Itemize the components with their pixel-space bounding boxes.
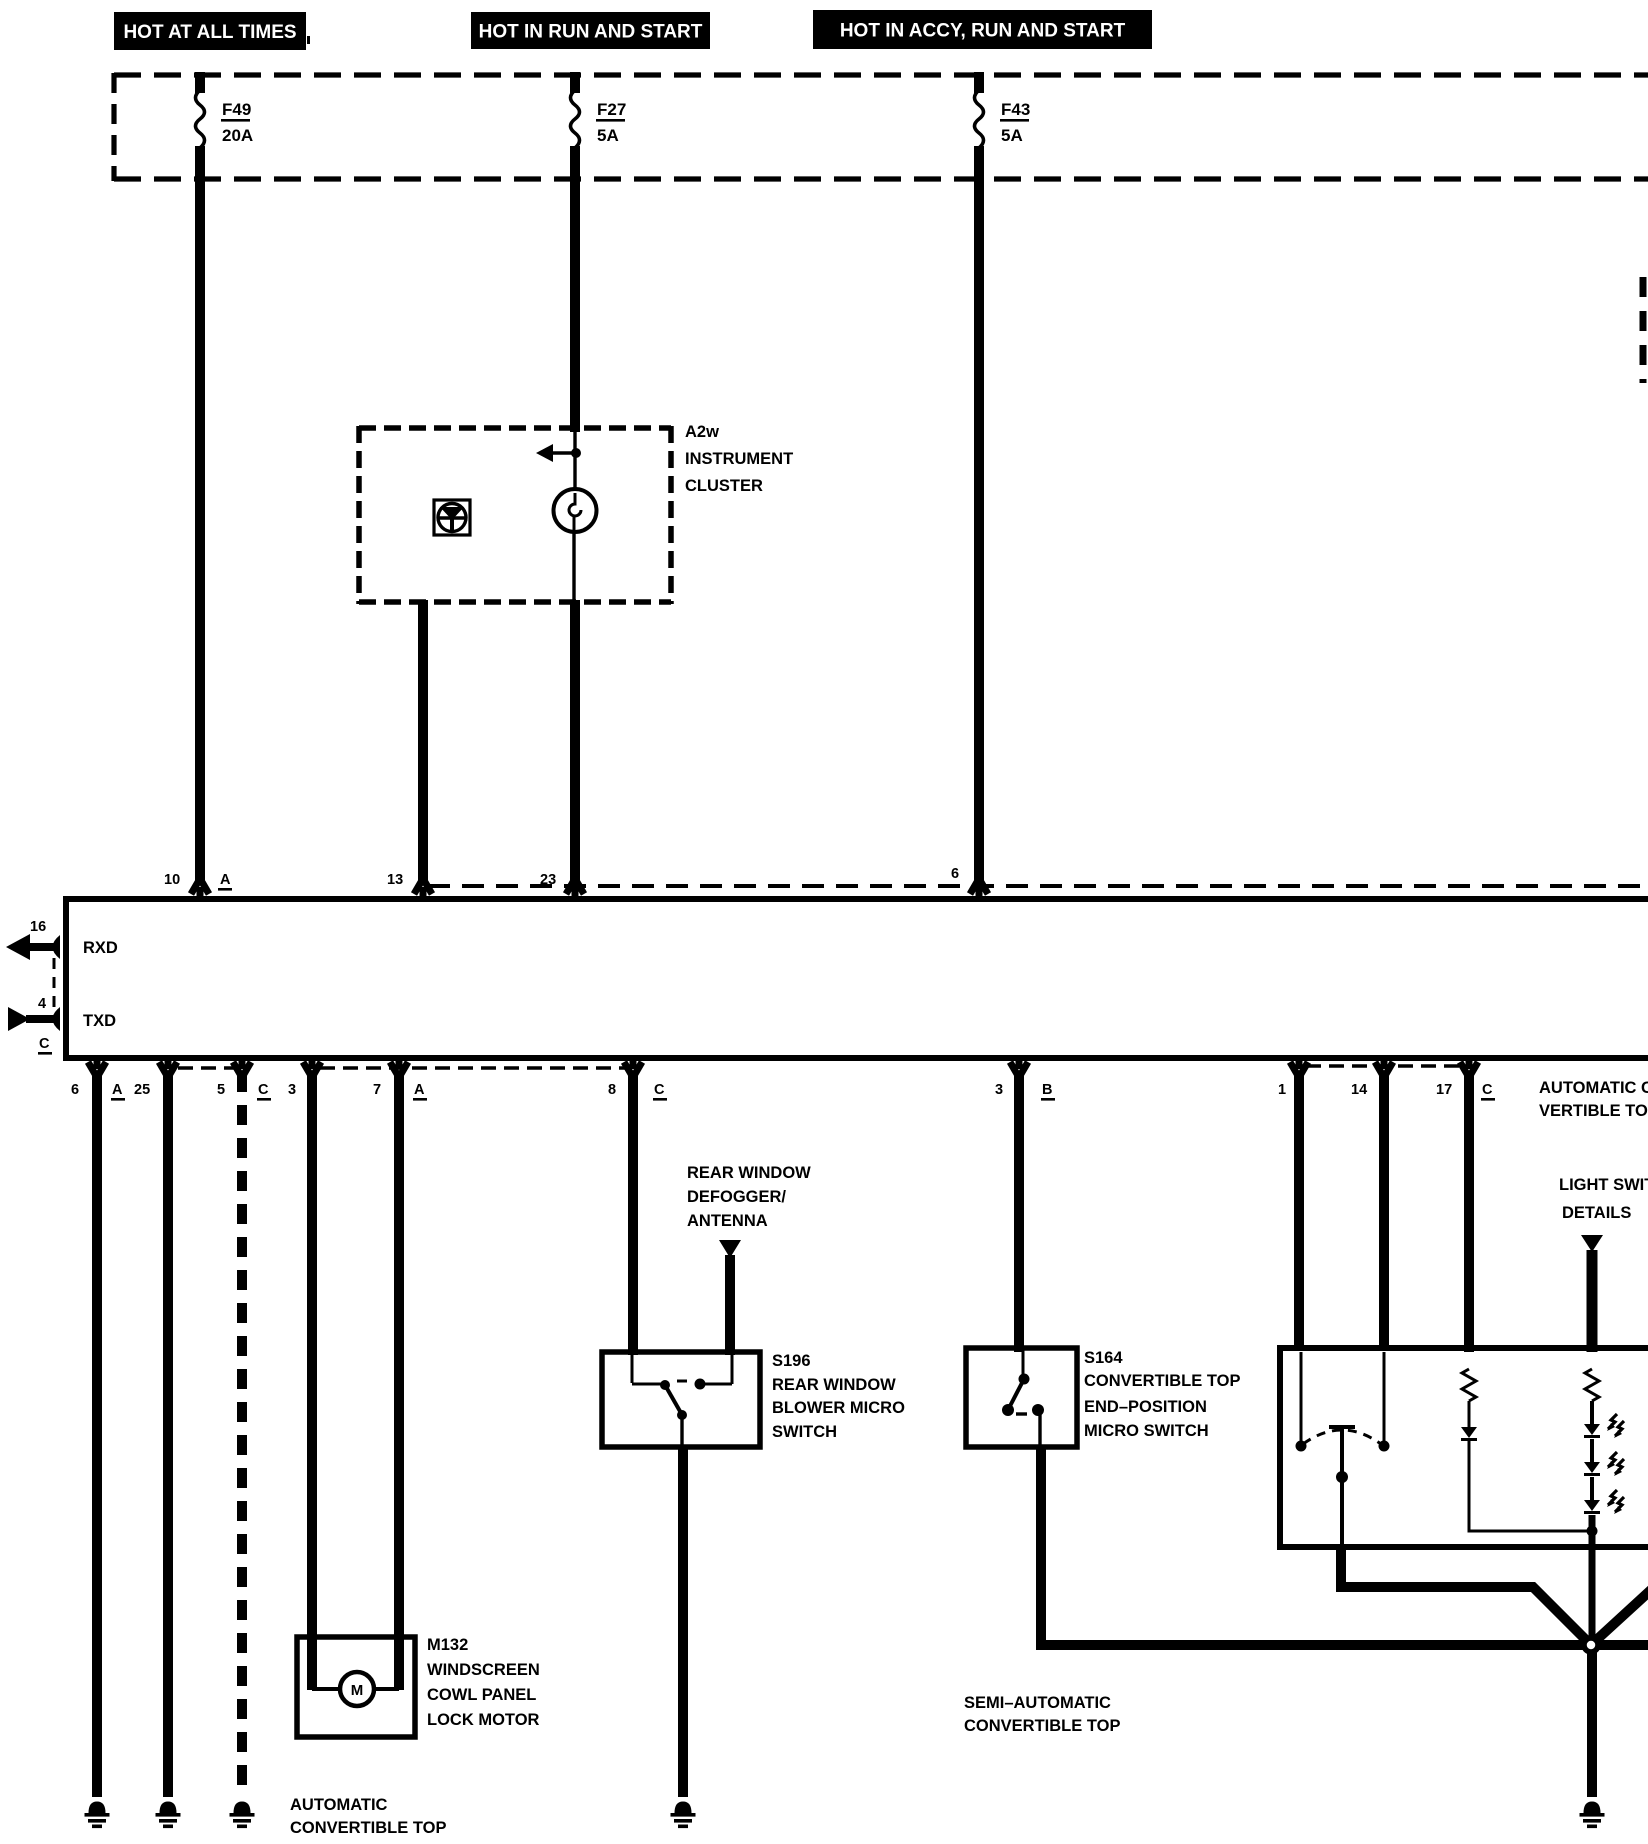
wire pin6 to ground	[92, 1072, 102, 1797]
text SEMI-AUTOMATIC CONVERTIBLE TOP	[964, 1694, 1120, 1735]
terminal cup bottom pin x=168	[159, 1056, 177, 1074]
svg-text:BLOWER MICRO: BLOWER MICRO	[772, 1399, 905, 1417]
svg-text:COWL PANEL: COWL PANEL	[427, 1686, 536, 1704]
wire pin3B to S164	[1014, 1072, 1024, 1352]
ground pin6 wire	[85, 1802, 110, 1829]
fuse F43 5A	[975, 90, 1031, 148]
svg-text:C: C	[654, 1082, 665, 1098]
bottom connector dashes B	[320, 1066, 626, 1070]
svg-text:3: 3	[288, 1082, 296, 1098]
text S164 CONVERTIBLE TOP END-POSITION MICRO SWITCH	[1084, 1349, 1240, 1440]
svg-text:6: 6	[71, 1082, 79, 1098]
svg-text:LOCK MOTOR: LOCK MOTOR	[427, 1711, 540, 1729]
bottom pin label 5 x=217	[217, 1082, 225, 1098]
instrument cluster A2w dashed box	[359, 426, 671, 604]
rotary switch contact pin1	[1296, 1352, 1307, 1452]
svg-text:ANTENNA: ANTENNA	[687, 1212, 768, 1230]
bottom pin label C x=1482	[1481, 1082, 1495, 1101]
svg-text:7: 7	[373, 1082, 381, 1098]
wire pin17 to light switch box	[1464, 1072, 1474, 1352]
svg-text:5A: 5A	[597, 126, 619, 145]
terminal cup bottom pin x=1019	[1010, 1056, 1028, 1074]
svg-text:13: 13	[387, 872, 403, 888]
svg-text:5: 5	[217, 1082, 225, 1098]
bottom pin label B x=1042	[1041, 1082, 1055, 1101]
svg-text:M: M	[351, 1682, 364, 1699]
rotary switch wiper	[1329, 1427, 1355, 1546]
bottom pin label 14 x=1351	[1351, 1082, 1367, 1098]
S164 switch contacts	[1002, 1350, 1044, 1447]
text S196 REAR WINDOW BLOWER MICRO SWITCH	[772, 1352, 905, 1441]
text A2w INSTRUMENT CLUSTER	[685, 423, 793, 495]
svg-text:M132: M132	[427, 1636, 468, 1654]
ground junction wire	[1580, 1802, 1605, 1829]
svg-text:F49: F49	[222, 100, 251, 119]
wire pin14 to light switch box	[1379, 1072, 1389, 1350]
wire pin25 to ground	[163, 1072, 173, 1797]
bottom pin label 3 x=995	[995, 1082, 1003, 1098]
svg-text:END–POSITION: END–POSITION	[1084, 1398, 1207, 1416]
terminal cup bottom pin x=1299	[1290, 1056, 1308, 1074]
svg-text:AUTOMATIC: AUTOMATIC	[290, 1796, 388, 1814]
bottom pin label 1 x=1278	[1278, 1082, 1286, 1098]
svg-text:C: C	[258, 1082, 269, 1098]
svg-text:A: A	[220, 872, 231, 888]
svg-text:MICRO SWITCH: MICRO SWITCH	[1084, 1422, 1209, 1440]
bottom pin label C x=654	[653, 1082, 667, 1101]
ground S196 wire	[671, 1802, 696, 1829]
steering wheel icon	[434, 500, 470, 535]
svg-text:INSTRUMENT: INSTRUMENT	[685, 450, 793, 468]
wire antenna to S196	[725, 1255, 735, 1355]
antenna feed arrow	[719, 1240, 741, 1258]
label HOT IN ACCY RUN AND START	[813, 10, 1152, 49]
svg-text:HOT AT ALL TIMES: HOT AT ALL TIMES	[123, 22, 296, 43]
svg-text:CONVERTIBLE TOP: CONVERTIBLE TOP	[1084, 1372, 1240, 1390]
svg-text:16: 16	[30, 919, 46, 935]
svg-text:S196: S196	[772, 1352, 811, 1370]
wire F49 top stub	[195, 72, 205, 93]
ground pin5 wire	[230, 1802, 255, 1829]
wire F49 to pin 10	[195, 146, 205, 884]
rotary switch dashed travel arc	[1303, 1430, 1381, 1444]
wire lamp to cluster bottom	[572, 531, 575, 601]
svg-text:F43: F43	[1001, 100, 1030, 119]
terminal cup bottom pin x=242	[233, 1056, 251, 1074]
wire LED2 to LED3	[1590, 1477, 1594, 1500]
svg-text:17: 17	[1436, 1082, 1452, 1098]
junction ring	[1584, 1638, 1598, 1652]
terminal cup pin 6 top	[970, 882, 988, 900]
text REAR WINDOW DEFOGGER ANTENNA	[687, 1164, 811, 1230]
left connector dashed stub	[53, 958, 56, 1012]
svg-text:TXD: TXD	[83, 1012, 116, 1030]
wire pin8 to S196	[628, 1072, 638, 1355]
wire cluster to pin 13	[418, 600, 428, 884]
svg-text:6: 6	[951, 866, 959, 882]
bottom pin label 17 x=1436	[1436, 1082, 1452, 1098]
resistor on LED column	[1585, 1369, 1599, 1401]
svg-text:CONVERTIBLE TOP: CONVERTIBLE TOP	[964, 1717, 1120, 1735]
wire pin1 to light switch box	[1294, 1072, 1304, 1350]
resistor on pin 17 branch	[1462, 1369, 1476, 1401]
wire resistor to diode	[1468, 1401, 1471, 1427]
wire F43 top stub	[974, 72, 984, 93]
svg-text:14: 14	[1351, 1082, 1367, 1098]
wire F27 top stub	[570, 72, 580, 93]
svg-text:F27: F27	[597, 100, 626, 119]
bottom pin label 3 x=288	[288, 1082, 296, 1098]
dashed wire pin5 to ground	[237, 1072, 247, 1797]
junction diagonal up-right	[1592, 1589, 1648, 1644]
wire S164 to junction	[1041, 1447, 1586, 1645]
LED 2	[1584, 1452, 1624, 1476]
fuse panel dashed box	[114, 73, 1648, 181]
S196 switch contacts	[632, 1354, 732, 1447]
terminal cup bottom pin x=312	[303, 1056, 321, 1074]
text LIGHT SWITCH DETAILS	[1559, 1176, 1648, 1222]
svg-text:25: 25	[134, 1082, 150, 1098]
svg-text:A: A	[112, 1082, 123, 1098]
rotary switch contact pin14	[1379, 1352, 1390, 1452]
wire S196 to ground	[678, 1447, 688, 1797]
svg-text:LIGHT SWITC: LIGHT SWITC	[1559, 1176, 1648, 1194]
wire LED column to junction	[1589, 1515, 1596, 1641]
svg-text:REAR WINDOW: REAR WINDOW	[772, 1376, 896, 1394]
svg-text:WINDSCREEN: WINDSCREEN	[427, 1661, 540, 1679]
svg-text:1: 1	[1278, 1082, 1286, 1098]
svg-text:4: 4	[38, 996, 46, 1012]
svg-text:SWITCH: SWITCH	[772, 1423, 837, 1441]
M132 motor	[312, 1672, 399, 1706]
junction wire down to ground	[1587, 1645, 1597, 1797]
LED 1	[1584, 1414, 1624, 1438]
terminal cup bottom pin x=97	[88, 1056, 106, 1074]
bottom pin label 7 x=373	[373, 1082, 381, 1098]
text AUTOMATIC CONVERTIBLE TOP (right edge, clipped)	[1539, 1079, 1648, 1120]
svg-text:DETAILS: DETAILS	[1562, 1204, 1631, 1222]
terminal cup bottom pin x=633	[624, 1056, 642, 1074]
bottom pin label C x=258	[257, 1082, 271, 1101]
bottom connector dashes A	[178, 1066, 234, 1070]
terminal cup pin 13	[414, 882, 432, 900]
svg-text:A: A	[414, 1082, 425, 1098]
wire rotary switch output to junction	[1341, 1544, 1591, 1645]
lamp symbol	[554, 489, 597, 532]
terminal cup bottom pin x=1469	[1460, 1056, 1478, 1074]
svg-text:10: 10	[164, 872, 180, 888]
svg-text:SEMI–AUTOMATIC: SEMI–AUTOMATIC	[964, 1694, 1111, 1712]
svg-text:23: 23	[540, 872, 556, 888]
right edge dashed box fragment	[1640, 277, 1647, 383]
bottom connector dashes C	[1306, 1064, 1461, 1068]
svg-text:RXD: RXD	[83, 939, 118, 957]
svg-text:CONVERTIBLE TOP: CONVERTIBLE TOP	[290, 1819, 446, 1837]
pin 16 RXD arrow out	[6, 934, 60, 960]
svg-text:A2w: A2w	[685, 423, 719, 441]
svg-text:3: 3	[995, 1082, 1003, 1098]
fuse F27 5A	[571, 90, 627, 148]
bottom pin label 25 x=134	[134, 1082, 150, 1098]
svg-text:HOT IN ACCY, RUN AND START: HOT IN ACCY, RUN AND START	[840, 21, 1126, 42]
svg-text:VERTIBLE TOP: VERTIBLE TOP	[1539, 1102, 1648, 1120]
pin label C left	[38, 1036, 52, 1055]
svg-text:HOT IN RUN AND START: HOT IN RUN AND START	[479, 22, 703, 43]
wire cluster to pin 23	[570, 600, 580, 884]
terminal cup bottom pin x=399	[390, 1056, 408, 1074]
svg-text:C: C	[1482, 1082, 1493, 1098]
svg-text:CLUSTER: CLUSTER	[685, 477, 763, 495]
wire F27 to instrument cluster	[570, 146, 580, 432]
pin 4 TXD arrow in	[8, 1007, 60, 1031]
text M132 WINDSCREEN COWL PANEL LOCK MOTOR	[427, 1636, 540, 1729]
wire inside cluster	[573, 430, 576, 490]
bottom pin label 6 x=71	[71, 1082, 79, 1098]
pin label A top	[218, 872, 232, 891]
wire pin3 to M132	[307, 1072, 317, 1690]
M132 box	[297, 1637, 415, 1737]
terminal cup pin 10	[191, 882, 209, 900]
svg-text:5A: 5A	[1001, 126, 1023, 145]
bottom pin label A x=112	[111, 1082, 125, 1101]
wire LED1 to LED2	[1590, 1439, 1594, 1462]
light switch feed arrow	[1581, 1235, 1603, 1252]
wire light switch feed	[1587, 1250, 1598, 1352]
junction dot on LED column	[1587, 1526, 1598, 1537]
bottom pin label A x=414	[413, 1082, 427, 1101]
svg-text:AUTOMATIC CON: AUTOMATIC CON	[1539, 1079, 1648, 1097]
svg-text:S164: S164	[1084, 1349, 1123, 1367]
text AUTOMATIC CONVERTIBLE TOP bottom left	[290, 1796, 446, 1837]
wire resistor to LED1	[1590, 1401, 1594, 1424]
diode on pin 17 branch	[1461, 1427, 1477, 1438]
junction wire right	[1591, 1640, 1648, 1650]
arrow RXD tap inside cluster	[536, 444, 581, 462]
S196 box	[602, 1352, 760, 1447]
fuse F49 20A	[196, 90, 254, 148]
bottom pin label 8 x=608	[608, 1082, 616, 1098]
stray tick mark	[307, 36, 310, 44]
svg-text:C: C	[39, 1036, 50, 1052]
light switch detail box	[1277, 1345, 1648, 1550]
terminal cup pin 23	[566, 882, 584, 900]
terminal cup bottom pin x=1384	[1375, 1056, 1393, 1074]
wire F43 to pin 6	[974, 146, 984, 884]
svg-text:REAR WINDOW: REAR WINDOW	[687, 1164, 811, 1182]
wire pin7 to M132	[394, 1072, 404, 1690]
top connector dashed line	[428, 884, 1648, 888]
LED 3	[1584, 1490, 1624, 1514]
svg-text:20A: 20A	[222, 126, 253, 145]
ground pin25 wire	[156, 1802, 181, 1829]
svg-text:DEFOGGER/: DEFOGGER/	[687, 1188, 786, 1206]
S164 box	[966, 1348, 1077, 1447]
label HOT AT ALL TIMES	[114, 12, 306, 50]
svg-text:8: 8	[608, 1082, 616, 1098]
wire diode to LED column	[1469, 1441, 1588, 1531]
svg-text:B: B	[1042, 1082, 1052, 1098]
control module box	[66, 896, 1648, 1061]
label HOT IN RUN AND START	[471, 12, 710, 49]
